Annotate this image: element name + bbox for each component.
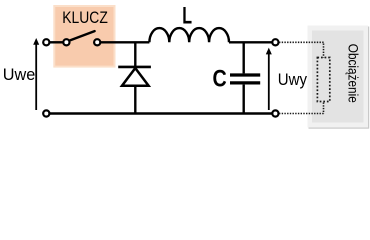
svg-text:Uwe: Uwe	[3, 65, 36, 84]
svg-text:Uwy: Uwy	[278, 70, 308, 89]
inductor L (4 humps)	[149, 28, 229, 42]
diode D1 triangle (anode, pointing up)	[122, 68, 149, 86]
input terminal top (node Uwe+)	[43, 39, 49, 45]
svg-text:Obciążenie: Obciążenie	[346, 44, 361, 103]
capacitor C bottom plate	[230, 81, 260, 84]
diode D1 cathode bar	[118, 66, 151, 69]
output terminal bottom (node Uwy-)	[272, 110, 278, 116]
wire top: switch to inductor	[100, 41, 149, 43]
switch S1 blade	[69, 31, 95, 41]
Uwe voltage arrow	[33, 38, 39, 110]
switch highlight box KLUCZ	[54, 6, 114, 67]
svg-text:C: C	[213, 65, 227, 92]
Uwy voltage arrow	[266, 48, 272, 110]
load enclosure box (gray)	[308, 26, 370, 129]
dotted wire: output top to load	[279, 41, 324, 43]
input terminal bottom (node Uwe-)	[43, 110, 49, 116]
wire top-left: source to switch	[50, 41, 64, 43]
load resistor (dashed outline)	[317, 58, 329, 102]
switch terminal circle right	[94, 39, 100, 45]
capacitor C wire from top rail	[242, 42, 244, 73]
switch terminal circle left	[63, 39, 69, 45]
dotted wire: load top drop	[323, 44, 325, 58]
wire top-right: inductor to output terminal	[229, 41, 272, 43]
wire bottom rail	[50, 112, 273, 114]
diode D1 wire to bottom rail	[134, 87, 136, 114]
capacitor C wire to bottom rail	[242, 85, 244, 114]
dotted wire: load bottom drop	[323, 103, 325, 114]
svg-text:KLUCZ: KLUCZ	[62, 9, 108, 27]
diode D1 wire from top rail	[134, 42, 136, 66]
capacitor C top plate	[230, 73, 260, 76]
output terminal top (node Uwy+)	[272, 39, 278, 45]
dotted wire: output bottom to load	[279, 113, 324, 115]
svg-text:L: L	[182, 3, 192, 30]
